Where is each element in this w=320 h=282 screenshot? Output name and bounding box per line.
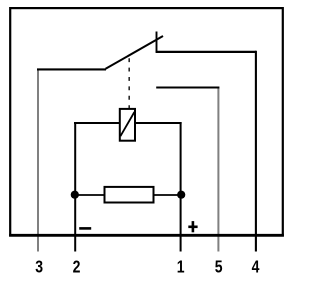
wire resistor right to node B <box>154 194 182 196</box>
wire node A to resistor left <box>75 194 105 196</box>
resistor R1 body <box>105 187 154 203</box>
dashed actuation link between arm and coil <box>128 58 130 108</box>
polarity plus sign <box>188 221 197 232</box>
wire left branch vertical (coil to node A to terminal 2) <box>74 122 76 252</box>
enclosure outline bottom edge (thicker) <box>9 234 284 237</box>
node A junction dot <box>71 191 79 199</box>
svg-text:3: 3 <box>35 257 43 277</box>
svg-text:2: 2 <box>73 257 81 277</box>
enclosure outline (relay case) <box>10 8 283 235</box>
wire terminal 5 lead (gray vertical) <box>217 88 219 252</box>
svg-text:4: 4 <box>252 257 260 277</box>
switch S1 moving arm <box>106 36 163 69</box>
svg-text:1: 1 <box>177 257 185 277</box>
wire right branch vertical (coil to node B to terminal 1) <box>180 122 182 252</box>
svg-text:5: 5 <box>215 257 223 277</box>
node B junction dot <box>177 191 185 199</box>
relay coil K1 diagonal stripe <box>120 112 134 136</box>
wire switch common from terminal 3 corner to pivot <box>37 68 106 70</box>
wire terminal 3 lead (gray vertical) <box>37 69 39 251</box>
polarity minus sign <box>79 227 91 230</box>
wire coil left to left branch (horizontal) <box>74 122 120 124</box>
wire coil right to right branch (horizontal) <box>135 122 182 124</box>
relay coil K1 body <box>120 109 135 141</box>
wire fixed contact to terminal 4 (horizontal) <box>156 51 256 53</box>
wire terminal 4 lead (vertical) <box>255 51 257 252</box>
wire normally-open contact to terminal 5 (horizontal) <box>156 86 219 88</box>
switch S1 fixed contact vertical <box>156 32 158 53</box>
